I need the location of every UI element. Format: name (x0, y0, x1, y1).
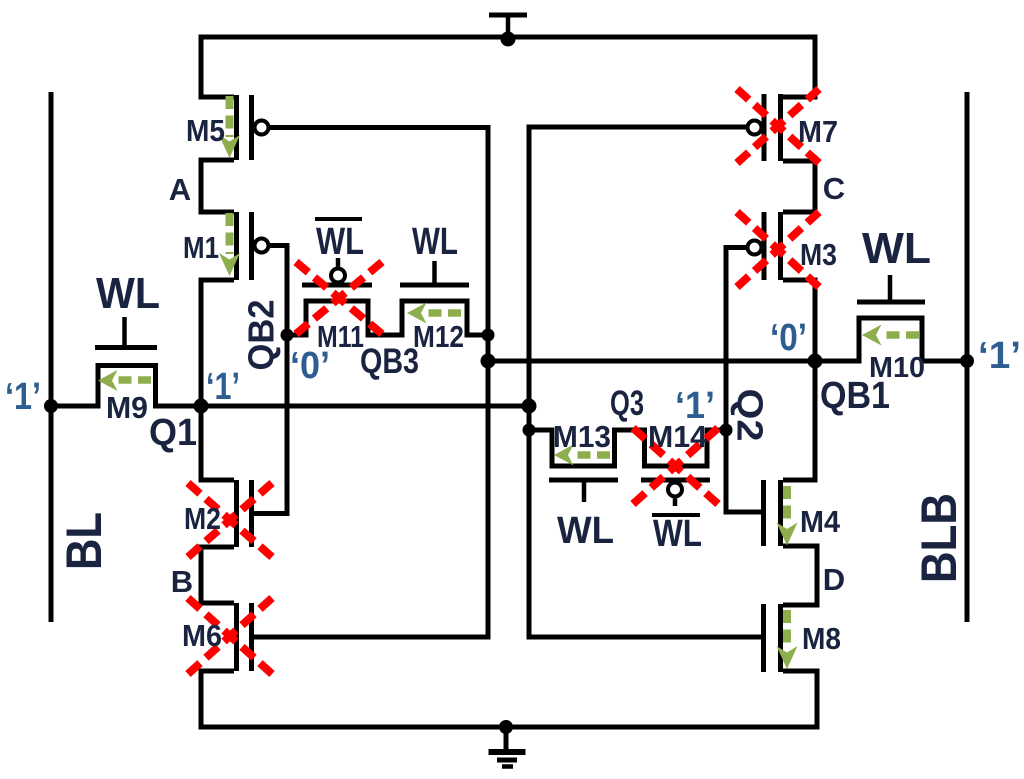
wire Q1 horizontal from BL through M9 channel (51, 366, 529, 407)
wire net Q1 vertical (M7 gate down to M8 gate) (529, 127, 761, 637)
wire bottom ground rail (199, 725, 820, 730)
svg-text:M8: M8 (802, 621, 841, 656)
junction dot node QB2 at M11 (281, 329, 294, 342)
transistor M4 NMOS (764, 480, 781, 546)
bit line BLB (965, 92, 970, 622)
svg-text:WL: WL (653, 513, 702, 555)
svg-text:WL: WL (96, 269, 160, 318)
ground symbol (489, 727, 526, 767)
wire M7 drain to node C to M3 source (783, 161, 815, 212)
svg-text:Q2: Q2 (730, 389, 771, 442)
junction dot QB3 to QB1 wire (481, 354, 496, 369)
VDD supply symbol (489, 15, 527, 37)
junction dot Q1 wire to vertical (522, 399, 537, 414)
svg-text:BLB: BLB (911, 493, 967, 583)
svg-text:QB3: QB3 (360, 342, 419, 381)
wire net Q2 (M3 gate down to M4 gate) (726, 248, 761, 513)
transistor M3 PMOS (748, 212, 781, 280)
wire M11 M12 pass chain QB2 to QB3 (287, 301, 488, 335)
svg-text:C: C (823, 171, 845, 206)
bit line BL (49, 92, 54, 622)
transistor M2 NMOS (237, 480, 252, 547)
red X fault mark on M6 (188, 598, 272, 674)
svg-text:Q3: Q3 (610, 384, 644, 423)
svg-text:WL: WL (557, 510, 614, 552)
transistor M10 gate and word line stub (857, 275, 925, 302)
svg-text:Q1: Q1 (149, 412, 197, 454)
red X fault mark on M14 (633, 428, 718, 504)
green current arrow through M13 (554, 445, 610, 466)
svg-text:A: A (169, 172, 191, 207)
wire net QB3 (M5 gate down to M6 gate) (254, 128, 488, 638)
junction dot node Q1 (194, 399, 209, 414)
wire M5 drain to node A to M1 source (201, 160, 234, 212)
svg-text:WL: WL (316, 221, 364, 263)
transistor M6 NMOS (237, 603, 252, 671)
svg-text:‘0’: ‘0’ (770, 317, 807, 359)
wire M5 source from VDD rail (201, 35, 234, 98)
overline of WL bar label for M14 (652, 513, 700, 517)
wire M6 drain to ground rail (201, 671, 234, 727)
junction dot VDD rail (501, 32, 516, 47)
transistor M1 PMOS (237, 212, 269, 280)
svg-text:QB1: QB1 (820, 375, 890, 417)
green current arrow through M5 (98, 96, 919, 669)
wire QB1 horizontal through M10 channel to BLB (488, 318, 967, 361)
svg-text:M13: M13 (553, 419, 611, 454)
wire M8 drain to ground rail (783, 671, 817, 727)
wire M13 M14 pass chain Q1 to Q2 (529, 430, 726, 466)
wire VDD top rail (199, 35, 818, 40)
svg-text:M3: M3 (800, 237, 837, 272)
green current arrow through M12 (407, 303, 461, 324)
red X fault mark on M2 (188, 483, 272, 557)
red X fault mark on M7 (737, 89, 819, 163)
svg-text:‘0’: ‘0’ (290, 345, 330, 387)
green current arrow through M8 (777, 610, 798, 669)
svg-text:‘1’: ‘1’ (206, 366, 240, 408)
svg-text:B: B (171, 564, 193, 599)
green current arrow through M1 (219, 213, 240, 276)
overline of WL bar label for M11 (315, 217, 362, 221)
svg-text:M5: M5 (186, 113, 225, 148)
wire M4 drain to node D to M8 source (783, 546, 817, 605)
wire M2 drain to node B to M6 source (201, 547, 234, 603)
svg-text:QB2: QB2 (241, 300, 282, 371)
red X fault mark on M11 (296, 262, 382, 334)
svg-text:M9: M9 (106, 390, 148, 425)
green current arrow through M10 (862, 325, 919, 346)
svg-text:M12: M12 (413, 319, 464, 354)
junction dot node QB1 (808, 354, 823, 369)
svg-text:WL: WL (862, 224, 931, 273)
svg-text:D: D (823, 562, 845, 597)
transistor M12 gate and stub (400, 261, 469, 285)
junction dot ground rail (499, 720, 513, 734)
transistor M7 PMOS (748, 94, 781, 161)
svg-text:M6: M6 (182, 618, 222, 653)
transistor M5 PMOS (237, 95, 269, 160)
green current arrow through M9 (98, 370, 151, 391)
junction dot BLB to QB1 wire (960, 354, 974, 368)
junction dot QB3 at M12 (482, 329, 495, 342)
svg-text:M2: M2 (184, 501, 221, 536)
green current arrow through M4 (777, 486, 798, 546)
junction dot BL to Q1 wire (44, 399, 58, 413)
wire M7 source from VDD rail (783, 35, 815, 98)
svg-text:‘1’: ‘1’ (675, 385, 715, 427)
junction dot node Q2 at M14 (720, 424, 733, 437)
wire net QB2 (M1 gate to M2 gate, node QB2) (254, 246, 287, 514)
svg-text:M7: M7 (798, 114, 838, 149)
red X fault mark on M3 (737, 212, 819, 287)
svg-text:‘1’: ‘1’ (5, 376, 41, 418)
transistor M11 gate with bubble (302, 258, 372, 285)
svg-text:‘1’: ‘1’ (978, 335, 1021, 377)
transistor M9 gate and word line stub (95, 317, 157, 348)
svg-text:M1: M1 (183, 230, 219, 265)
junction dot Q1 at M13 (523, 424, 536, 437)
wire M3 drain down to node QB1 and M4 source (783, 280, 815, 480)
wire M1 drain down to node Q1 and M2 source (201, 280, 234, 480)
svg-text:WL: WL (412, 221, 458, 263)
svg-text:M4: M4 (800, 504, 841, 539)
transistor M13 gate and stub (549, 480, 618, 502)
transistor M14 gate with bubble (641, 480, 710, 506)
svg-text:BL: BL (56, 512, 112, 570)
transistor M8 NMOS (764, 604, 781, 672)
